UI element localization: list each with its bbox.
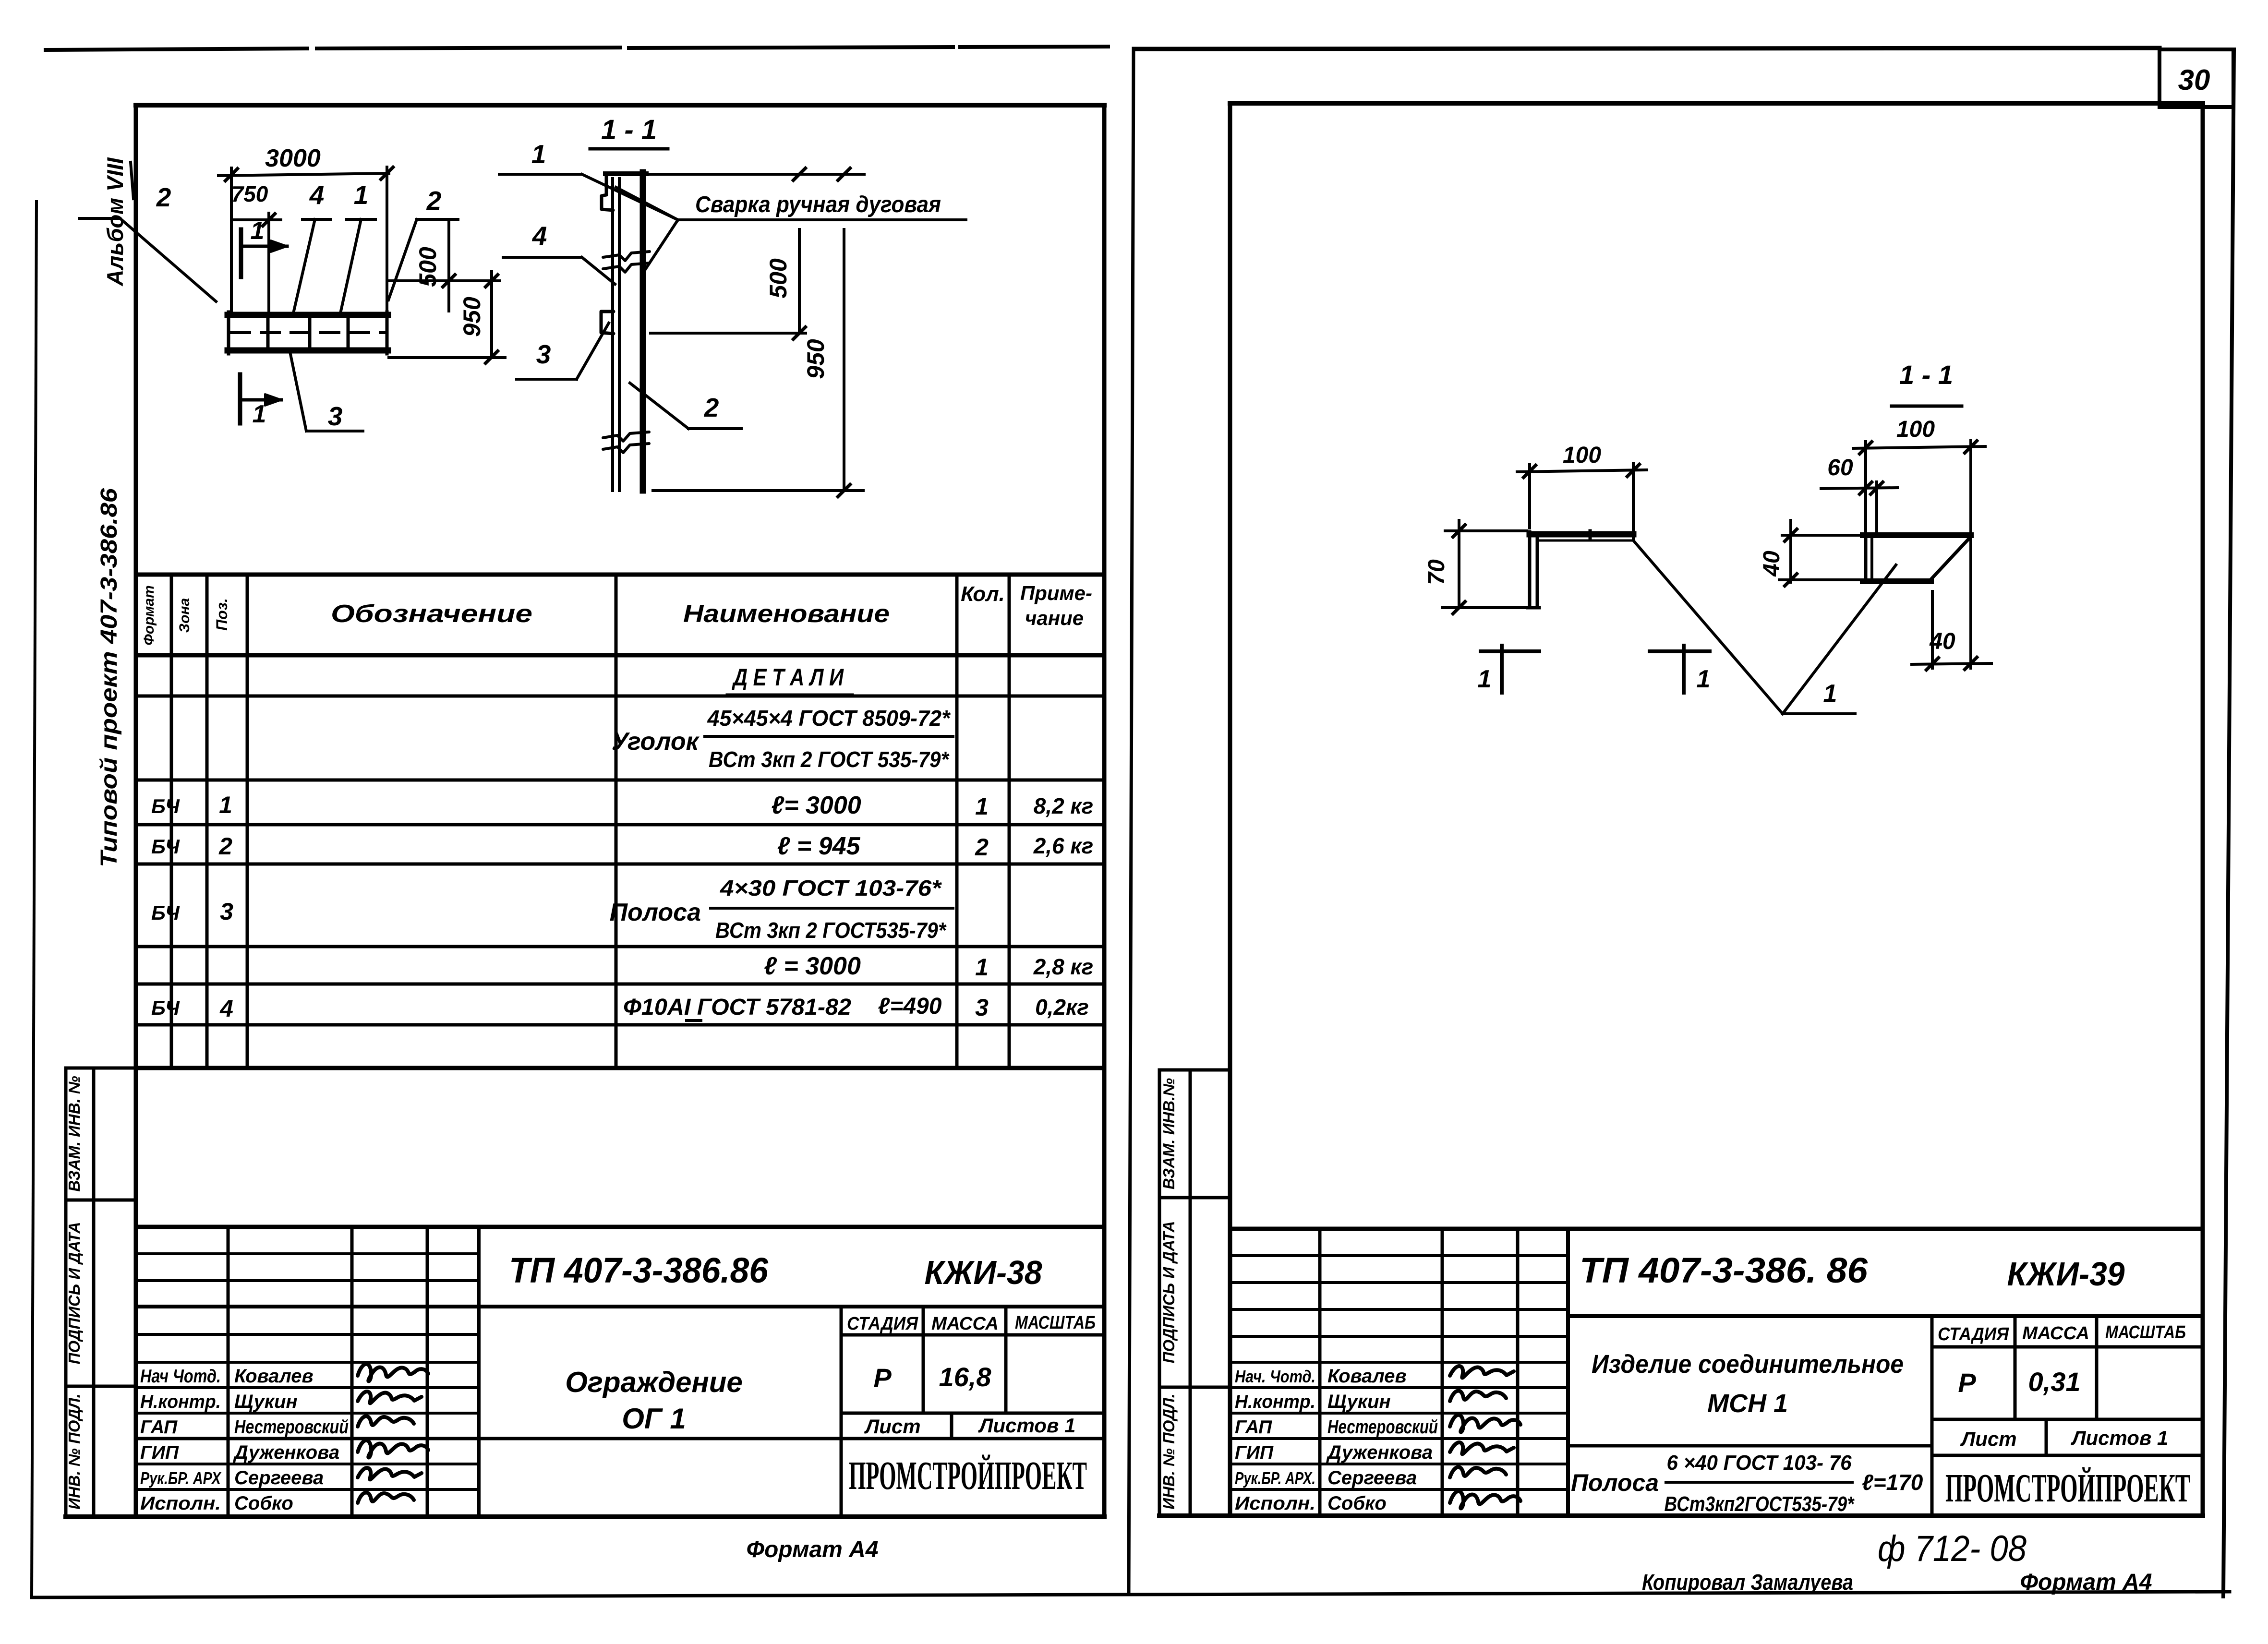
svg-text:Рук.БР. АРХ.: Рук.БР. АРХ. <box>1235 1468 1315 1488</box>
svg-text:1: 1 <box>354 180 369 210</box>
svg-text:Типовой проект 407-3-386.86: Типовой проект 407-3-386.86 <box>97 488 122 867</box>
svg-text:ГАП: ГАП <box>1235 1417 1272 1438</box>
svg-text:ПОДПИСЬ И ДАТА: ПОДПИСЬ И ДАТА <box>1160 1221 1178 1364</box>
svg-text:ℓ= 3000: ℓ= 3000 <box>771 792 861 819</box>
svg-text:Нач. Чотд.: Нач. Чотд. <box>1235 1367 1315 1386</box>
svg-text:3: 3 <box>220 898 233 925</box>
svg-text:Изделие соединительное: Изделие соединительное <box>1592 1350 1904 1379</box>
svg-text:БЧ: БЧ <box>151 996 180 1019</box>
svg-text:Собко: Собко <box>234 1493 293 1514</box>
svg-text:ф 712- 08: ф 712- 08 <box>1878 1528 2027 1569</box>
svg-text:8,2 кг: 8,2 кг <box>1034 793 1094 818</box>
svg-text:950: 950 <box>458 297 485 337</box>
svg-text:16,8: 16,8 <box>939 1362 992 1392</box>
svg-text:Исполн.: Исполн. <box>140 1493 221 1514</box>
svg-text:500: 500 <box>414 247 441 287</box>
svg-text:Полоса: Полоса <box>1571 1469 1659 1496</box>
svg-text:45×45×4 ГОСТ 8509-72*: 45×45×4 ГОСТ 8509-72* <box>707 706 951 731</box>
svg-text:6 ×40 ГОСТ 103- 76: 6 ×40 ГОСТ 103- 76 <box>1667 1451 1852 1475</box>
svg-text:ТП 407-3-386. 86: ТП 407-3-386. 86 <box>1580 1250 1868 1290</box>
svg-text:ℓ = 945: ℓ = 945 <box>777 832 861 860</box>
svg-text:1: 1 <box>219 792 232 818</box>
svg-text:60: 60 <box>1827 455 1853 480</box>
svg-text:МАСШТАБ: МАСШТАБ <box>1015 1313 1096 1333</box>
svg-text:500: 500 <box>765 258 792 299</box>
svg-text:Приме-: Приме- <box>1020 582 1092 604</box>
svg-text:100: 100 <box>1563 443 1601 468</box>
svg-text:Собко: Собко <box>1327 1493 1387 1514</box>
svg-text:2: 2 <box>218 833 232 860</box>
svg-text:Исполн.: Исполн. <box>1235 1493 1315 1514</box>
svg-text:чание: чание <box>1025 607 1084 629</box>
svg-text:Дуженкова: Дуженкова <box>1326 1442 1433 1463</box>
svg-text:Нестеровский: Нестеровский <box>1327 1416 1438 1438</box>
svg-text:950: 950 <box>802 339 829 379</box>
svg-text:1: 1 <box>251 217 265 245</box>
svg-text:1: 1 <box>1823 680 1837 708</box>
svg-text:ГАП: ГАП <box>140 1417 178 1438</box>
svg-text:ГИП: ГИП <box>140 1442 179 1463</box>
svg-text:Щукин: Щукин <box>1327 1391 1391 1412</box>
svg-text:ГИП: ГИП <box>1235 1442 1274 1463</box>
svg-text:БЧ: БЧ <box>151 795 180 817</box>
svg-text:Н.контр.: Н.контр. <box>1235 1392 1315 1412</box>
svg-text:Листов 1: Листов 1 <box>978 1414 1076 1437</box>
svg-text:30: 30 <box>2178 64 2210 96</box>
svg-text:1: 1 <box>531 139 546 169</box>
svg-text:Р: Р <box>1958 1368 1976 1398</box>
svg-text:1: 1 <box>975 793 989 820</box>
svg-text:Уголок: Уголок <box>612 728 700 756</box>
svg-text:2: 2 <box>975 834 989 861</box>
svg-text:Щукин: Щукин <box>234 1391 298 1412</box>
svg-text:ОГ 1: ОГ 1 <box>622 1403 686 1435</box>
svg-text:Кол.: Кол. <box>961 582 1005 606</box>
svg-text:Ковалев: Ковалев <box>234 1366 314 1387</box>
svg-text:Формат А4: Формат А4 <box>2020 1570 2152 1595</box>
svg-text:Лист: Лист <box>1960 1428 2016 1450</box>
svg-text:0,31: 0,31 <box>2028 1367 2081 1397</box>
svg-text:2: 2 <box>426 186 442 216</box>
svg-text:ТП 407-3-386.86: ТП 407-3-386.86 <box>509 1250 769 1290</box>
svg-text:МСН 1: МСН 1 <box>1707 1389 1788 1418</box>
svg-text:4×30 ГОСТ 103-76*: 4×30 ГОСТ 103-76* <box>720 876 942 900</box>
svg-text:ВЗАМ. ИНВ.№: ВЗАМ. ИНВ.№ <box>1160 1078 1178 1189</box>
svg-text:3: 3 <box>536 339 551 369</box>
svg-text:3: 3 <box>328 401 343 431</box>
svg-text:ИНВ. № ПОДЛ.: ИНВ. № ПОДЛ. <box>1160 1393 1178 1509</box>
svg-text:1 - 1: 1 - 1 <box>601 114 657 145</box>
svg-text:Поз.: Поз. <box>213 598 230 631</box>
svg-text:Рук.БР. АРХ: Рук.БР. АРХ <box>140 1468 222 1488</box>
svg-text:1: 1 <box>1478 665 1492 693</box>
svg-text:БЧ: БЧ <box>151 835 180 858</box>
svg-text:2,6 кг: 2,6 кг <box>1033 833 1094 858</box>
svg-text:ℓ=170: ℓ=170 <box>1862 1470 1923 1495</box>
svg-text:КЖИ-38: КЖИ-38 <box>925 1254 1042 1291</box>
svg-text:ℓ=490: ℓ=490 <box>878 994 942 1019</box>
svg-text:100: 100 <box>1896 417 1935 442</box>
svg-text:1: 1 <box>1697 665 1711 693</box>
svg-text:Сергеева: Сергеева <box>1327 1467 1417 1488</box>
svg-text:Ограждение: Ограждение <box>565 1366 743 1398</box>
svg-text:4: 4 <box>219 995 233 1022</box>
svg-text:70: 70 <box>1424 559 1449 585</box>
svg-text:4: 4 <box>532 221 547 251</box>
svg-text:Нестеровский: Нестеровский <box>234 1416 349 1438</box>
svg-text:Листов 1: Листов 1 <box>2071 1427 2169 1449</box>
svg-text:БЧ: БЧ <box>151 901 180 924</box>
svg-text:Н.контр.: Н.контр. <box>140 1392 221 1412</box>
svg-text:СТАДИЯ: СТАДИЯ <box>847 1314 918 1334</box>
svg-text:1 - 1: 1 - 1 <box>1899 360 1953 390</box>
svg-text:Дуженкова: Дуженкова <box>233 1442 339 1463</box>
svg-text:2: 2 <box>704 393 719 422</box>
svg-text:ИНВ. № ПОДЛ.: ИНВ. № ПОДЛ. <box>65 1393 83 1509</box>
svg-text:Ковалев: Ковалев <box>1327 1366 1407 1387</box>
svg-text:ПОДПИСЬ И ДАТА: ПОДПИСЬ И ДАТА <box>65 1222 83 1365</box>
svg-text:Д Е Т А Л И: Д Е Т А Л И <box>732 664 844 691</box>
svg-text:ВЗАМ. ИНВ. №: ВЗАМ. ИНВ. № <box>65 1076 83 1192</box>
svg-text:Наименование: Наименование <box>683 600 890 628</box>
svg-text:Сварка ручная дуговая: Сварка ручная дуговая <box>695 192 941 217</box>
svg-text:2: 2 <box>156 182 171 212</box>
svg-text:ВСт3кп2ГОСТ535-79*: ВСт3кп2ГОСТ535-79* <box>1665 1492 1855 1516</box>
svg-text:Сергеева: Сергеева <box>234 1467 324 1488</box>
svg-text:0,2кг: 0,2кг <box>1035 995 1089 1020</box>
svg-text:МАССА: МАССА <box>931 1314 999 1334</box>
svg-text:750: 750 <box>231 181 268 206</box>
svg-text:Копировал Замалуева: Копировал Замалуева <box>1642 1570 1853 1595</box>
svg-text:ПРОМСТРОЙПРОЕКТ: ПРОМСТРОЙПРОЕКТ <box>849 1453 1087 1498</box>
svg-text:КЖИ-39: КЖИ-39 <box>2007 1255 2125 1293</box>
svg-text:ВСт 3кп 2 ГОСТ 535-79*: ВСт 3кп 2 ГОСТ 535-79* <box>709 747 950 772</box>
svg-text:СТАДИЯ: СТАДИЯ <box>1938 1324 2009 1344</box>
svg-text:3000: 3000 <box>265 144 321 172</box>
svg-text:2,8 кг: 2,8 кг <box>1033 954 1094 979</box>
svg-text:Зона: Зона <box>177 598 193 633</box>
svg-text:Ф10АI ГОСТ 5781-82: Ф10АI ГОСТ 5781-82 <box>623 995 851 1020</box>
svg-text:МАССА: МАССА <box>2022 1323 2089 1344</box>
svg-text:Нач Чотд.: Нач Чотд. <box>140 1366 221 1387</box>
svg-text:ВСт 3кп 2 ГОСТ535-79*: ВСт 3кп 2 ГОСТ535-79* <box>715 918 947 943</box>
svg-text:МАСШТАБ: МАСШТАБ <box>2105 1322 2186 1343</box>
svg-text:3: 3 <box>975 994 989 1021</box>
svg-text:Обозначение: Обозначение <box>331 600 532 628</box>
svg-text:4: 4 <box>309 180 325 210</box>
svg-text:Р: Р <box>873 1363 892 1393</box>
svg-text:1: 1 <box>253 400 266 428</box>
svg-text:Формат: Формат <box>141 585 157 645</box>
svg-text:ℓ = 3000: ℓ = 3000 <box>764 952 861 980</box>
svg-text:1: 1 <box>975 954 989 981</box>
svg-text:ПРОМСТРОЙПРОЕКТ: ПРОМСТРОЙПРОЕКТ <box>1945 1466 2190 1511</box>
svg-text:Формат А4: Формат А4 <box>746 1537 878 1562</box>
svg-text:Лист: Лист <box>864 1415 920 1438</box>
svg-text:40: 40 <box>1759 551 1785 577</box>
svg-text:Полоса: Полоса <box>610 899 701 926</box>
